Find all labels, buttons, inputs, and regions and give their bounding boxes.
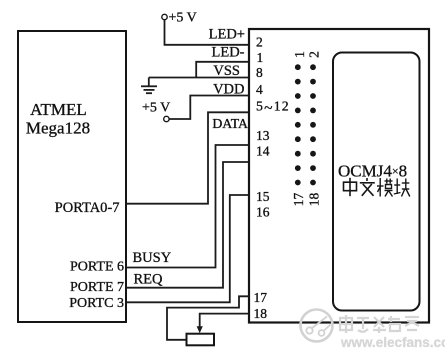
svg-text:1: 1 <box>257 50 264 65</box>
wire pin13 to BUSY PORTE6 <box>126 145 249 268</box>
svg-text:VSS: VSS <box>213 63 240 79</box>
header pin dots column 2 (even pins) <box>310 64 316 185</box>
ground symbol <box>141 78 157 94</box>
svg-text:PORTE 6: PORTE 6 <box>70 260 124 275</box>
svg-text:18: 18 <box>307 193 322 207</box>
svg-text:8: 8 <box>256 65 263 80</box>
potentiometer RP1 body <box>187 334 215 346</box>
power terminal +5V top circle <box>162 14 167 19</box>
wire pin1 LED- to ground junction <box>196 62 249 78</box>
svg-text:13: 13 <box>256 128 270 143</box>
wire data bus pins 5-12 to PORTA0-7 <box>126 112 249 203</box>
svg-text:1: 1 <box>292 51 307 58</box>
wire pin14 to REQ PORTE7 <box>126 162 249 288</box>
wire pin15 to PORTC3 <box>126 195 249 302</box>
svg-text:www.elecfans.com: www.elecfans.com <box>340 335 445 350</box>
svg-text:18: 18 <box>254 306 268 321</box>
LCD module U2 box OCMJ4x8 <box>249 29 429 323</box>
svg-text:+5 V: +5 V <box>169 11 197 26</box>
svg-text:Mega128: Mega128 <box>26 119 90 138</box>
U2 LCD screen rounded bezel <box>333 53 420 311</box>
wire pin18 to potentiometer wiper <box>200 314 249 327</box>
header pin dots column 1 (odd pins) <box>295 64 301 185</box>
watermark logo circle <box>301 310 333 342</box>
power terminal +5V lower circle <box>164 116 169 121</box>
svg-text:17: 17 <box>291 193 306 207</box>
wire pin17 to potentiometer left end <box>167 296 249 340</box>
svg-text:VDD: VDD <box>213 82 244 98</box>
svg-text:LED-: LED- <box>211 45 244 61</box>
svg-text:PORTA0-7: PORTA0-7 <box>55 200 120 216</box>
wire +5V to pin2 LED+ <box>165 20 250 45</box>
U2 label Chinese: wen char <box>360 178 375 196</box>
U2 label Chinese: zhong char <box>344 178 357 196</box>
MCU U1 box ATMEL Mega128 <box>18 31 126 322</box>
svg-text:16: 16 <box>256 205 270 220</box>
svg-text:REQ: REQ <box>134 272 164 288</box>
svg-text:PORTC 3: PORTC 3 <box>69 296 124 311</box>
svg-text:PORTE 7: PORTE 7 <box>70 280 124 295</box>
svg-text:17: 17 <box>254 290 268 305</box>
svg-text:2: 2 <box>307 51 322 58</box>
watermark Chinese text dian zi fa shao you <box>340 315 419 333</box>
wiper arrowhead <box>197 326 203 333</box>
svg-text:OCMJ4×8: OCMJ4×8 <box>338 162 407 181</box>
wire pin8 VSS to ground <box>149 77 249 79</box>
svg-text:+5 V: +5 V <box>142 101 170 116</box>
svg-text:2: 2 <box>256 34 263 49</box>
U2 label Chinese: kuai char <box>394 179 410 197</box>
U2 label Chinese: mo char <box>377 178 393 197</box>
svg-text:BUSY: BUSY <box>133 250 172 266</box>
svg-text:DATA: DATA <box>212 116 248 131</box>
svg-text:4: 4 <box>256 82 263 97</box>
svg-text:LED+: LED+ <box>209 27 245 43</box>
svg-text:14: 14 <box>256 144 270 159</box>
svg-text:15: 15 <box>256 189 270 204</box>
wire pin4 VDD to +5V source <box>169 96 249 120</box>
svg-text:ATMEL: ATMEL <box>30 100 87 119</box>
